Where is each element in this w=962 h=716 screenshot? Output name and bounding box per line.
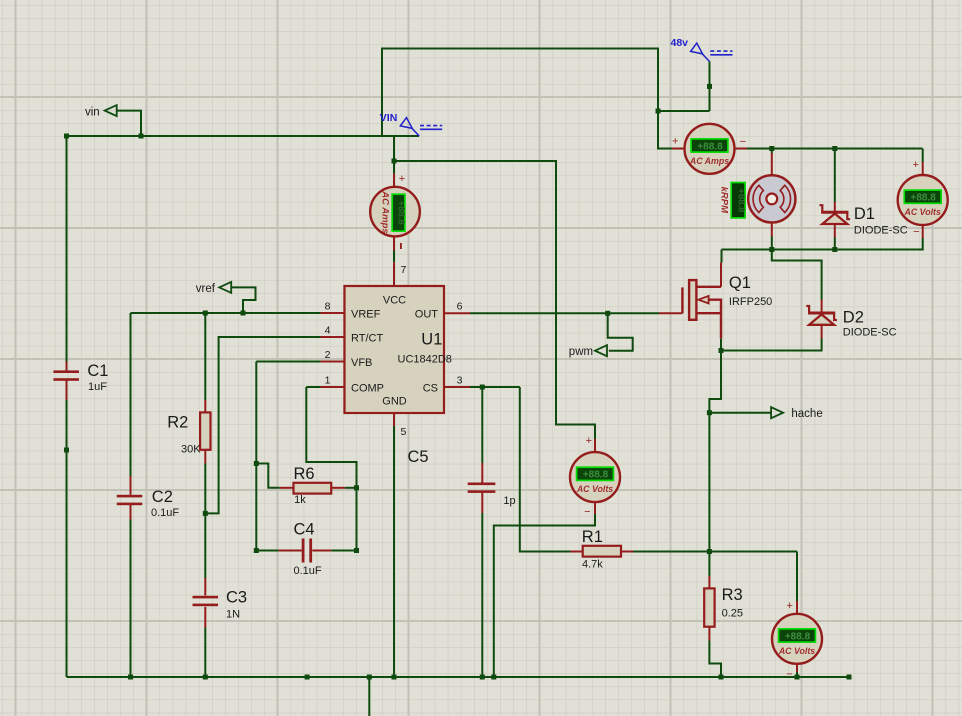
diode D2: [806, 306, 837, 325]
label U1: [421, 331, 442, 349]
svg-text:+88.8: +88.8: [697, 141, 723, 152]
value R1 4.7k: [582, 558, 603, 570]
svg-text:−: −: [584, 506, 590, 518]
voltmeter AC Volts right M3: [898, 175, 948, 225]
svg-text:1uF: 1uF: [88, 381, 107, 393]
junction at 66.5,450: [64, 448, 69, 453]
label C1: [87, 362, 108, 380]
svg-text:−: −: [786, 669, 792, 681]
junction at 772,249.5: [769, 247, 774, 252]
svg-text:+: +: [672, 136, 678, 148]
diode D1: [820, 205, 851, 224]
junction at 834.8,148.5: [832, 146, 837, 151]
svg-text:GND: GND: [382, 395, 407, 407]
pin 7 VCC stub: [393, 262, 395, 286]
svg-text:OUT: OUT: [415, 308, 439, 320]
terminal pwm: [595, 345, 607, 356]
svg-text:AC Volts: AC Volts: [576, 484, 613, 494]
value R6 1k: [294, 494, 306, 506]
wire R1 node to M5: [796, 552, 798, 602]
pin name RT/CT: [351, 332, 383, 344]
pin name CS: [423, 382, 438, 394]
svg-text:8: 8: [325, 301, 331, 313]
wire GND pin to rail: [393, 426, 395, 677]
meter M1 plus: [399, 173, 405, 185]
svg-text:+88.8: +88.8: [396, 201, 407, 225]
pin 2 VFB stub: [321, 361, 345, 363]
value C2 0.1uF: [151, 507, 179, 519]
junction at 709.4,412.7: [707, 410, 712, 415]
wire R6 right: [345, 487, 357, 489]
wire hache stub: [709, 412, 771, 414]
wire main input horizontal net VIN: [67, 135, 420, 137]
wire D1 bottom: [834, 224, 836, 249]
wire 48v probe drop: [709, 62, 711, 112]
pin number 6: [457, 301, 463, 313]
wire C3 to ground rail: [204, 628, 206, 678]
label vin: [85, 107, 100, 119]
svg-text:CS: CS: [423, 382, 438, 394]
wire C5 top: [481, 387, 483, 463]
voltmeter AC Volts bottom M5: [772, 614, 822, 664]
svg-text:0.1uF: 0.1uF: [294, 565, 322, 577]
resistor R3: [704, 576, 714, 641]
wire meter M2 to right corner: [747, 148, 923, 150]
value C4 0.1uF: [294, 565, 322, 577]
svg-text:+88.8: +88.8: [911, 193, 937, 204]
svg-text:7: 7: [401, 264, 407, 276]
svg-text:−: −: [913, 226, 919, 238]
svg-text:R2: R2: [167, 413, 188, 431]
svg-text:1: 1: [325, 375, 331, 387]
meter M5 plus: [786, 600, 792, 612]
junction at 243,313: [241, 311, 246, 316]
wire RT/CT riser: [205, 337, 320, 513]
svg-text:6: 6: [457, 301, 463, 313]
junction rail 369.3: [367, 675, 372, 680]
svg-text:VFB: VFB: [351, 357, 372, 369]
svg-text:+88.8: +88.8: [785, 631, 811, 642]
wire D2 bottom: [721, 325, 822, 351]
capacitor C1: [53, 362, 78, 401]
label C5: [408, 448, 429, 466]
wire R2 junction to C3: [204, 513, 206, 578]
wire R6 left jog: [256, 464, 280, 488]
value D1 DIODE-SC: [854, 225, 908, 237]
svg-text:RT/CT: RT/CT: [351, 332, 383, 344]
resistor R1: [571, 546, 634, 557]
svg-text:pwm: pwm: [569, 346, 593, 358]
svg-text:U1: U1: [421, 331, 442, 349]
junction at 721,350.5: [719, 348, 724, 353]
meter M3 minus: [913, 226, 919, 238]
capacitor C3: [193, 578, 219, 628]
meter stub red bottom M3: [922, 225, 924, 239]
junction rail 721: [719, 675, 724, 680]
value U1 UC1842D8: [398, 354, 452, 366]
pin name COMP: [351, 382, 384, 394]
label C2: [152, 488, 173, 506]
wire CS net: [470, 386, 520, 388]
svg-text:+: +: [786, 600, 792, 612]
pin name VCC: [383, 295, 406, 307]
meter M1 stub bottom: [393, 237, 395, 263]
meter M4 plus: [586, 435, 592, 447]
pin 4 RT/CT stub: [321, 336, 345, 338]
wire CS to R1: [520, 387, 571, 552]
transistor Q1 IRFP250: [682, 263, 721, 339]
wire node to R3: [708, 552, 710, 577]
wire pwm jog: [608, 313, 633, 350]
wire VREF net: [131, 312, 321, 314]
svg-text:+88.8: +88.8: [735, 188, 746, 212]
label pwm: [569, 346, 593, 358]
value R2 30K: [181, 443, 201, 455]
meter M2 minus: [740, 136, 746, 148]
terminal vin: [105, 105, 117, 116]
wire R3 to ground rail: [709, 641, 721, 678]
svg-text:3: 3: [457, 375, 463, 387]
value R3 0.25: [722, 607, 743, 619]
svg-text:4.7k: 4.7k: [582, 558, 603, 570]
svg-text:AC Volts: AC Volts: [778, 646, 815, 656]
svg-text:Q1: Q1: [729, 274, 751, 292]
meter M4 stub top: [594, 439, 596, 452]
junction rail 493.8: [491, 675, 496, 680]
svg-text:1p: 1p: [503, 495, 515, 507]
svg-text:1N: 1N: [226, 608, 240, 620]
svg-text:DIODE-SC: DIODE-SC: [854, 225, 908, 237]
svg-text:0.25: 0.25: [722, 607, 743, 619]
svg-text:VREF: VREF: [351, 308, 381, 320]
junction at 772,148.5: [769, 146, 774, 151]
pin number 4: [325, 325, 331, 337]
junction at 205.3,513.4: [203, 511, 208, 516]
wire ground stem: [368, 677, 370, 716]
svg-text:C2: C2: [152, 488, 173, 506]
voltmeter AC Amps U-top-right: [685, 124, 735, 174]
svg-text:C4: C4: [294, 520, 315, 538]
svg-text:R1: R1: [582, 528, 603, 546]
svg-text:AC Volts: AC Volts: [904, 207, 941, 217]
meter M3 plus: [912, 159, 918, 171]
svg-text:−: −: [740, 136, 746, 148]
pin name GND: [382, 395, 407, 407]
svg-text:C5: C5: [408, 448, 429, 466]
pin name VFB: [351, 357, 372, 369]
pin name VREF: [351, 308, 381, 320]
junction rail 482.3: [480, 675, 485, 680]
probe 48v: [671, 37, 733, 61]
svg-text:kRPM: kRPM: [718, 187, 729, 214]
label D2: [843, 308, 864, 326]
svg-text:vin: vin: [85, 107, 100, 119]
meter M4 minus: [584, 506, 590, 518]
pin number 2: [325, 349, 331, 361]
junction at 834.8,249.5: [832, 247, 837, 252]
svg-text:C1: C1: [87, 362, 108, 380]
label Q1: [729, 274, 751, 292]
wire gate net from OUT pin: [470, 312, 682, 314]
meter M5 stub top: [796, 601, 798, 615]
junction at 205.3,313: [203, 311, 208, 316]
label kRPM: [718, 187, 729, 214]
wire vref terminal jog: [231, 287, 256, 313]
wire vin terminal stub: [117, 111, 142, 136]
meter M5 minus: [786, 669, 792, 681]
value C1 1uF: [88, 381, 107, 393]
wire D2 branch: [772, 250, 822, 312]
meter M2 plus: [672, 136, 678, 148]
svg-text:48v: 48v: [671, 37, 689, 49]
junction rail end 849: [847, 675, 852, 680]
svg-text:COMP: COMP: [351, 382, 384, 394]
junction at 256.3,550.5: [254, 548, 259, 553]
value C3 1N: [226, 608, 240, 620]
junction rail 130.5: [128, 675, 133, 680]
value C5 1p: [503, 495, 515, 507]
wire to AC Amps meter plus: [658, 111, 672, 149]
svg-text:C3: C3: [226, 588, 247, 606]
svg-text:VIN: VIN: [380, 112, 398, 124]
wire bottom of M3 to motor bottom: [722, 238, 923, 250]
junction at 607.7,313.3: [605, 311, 610, 316]
wire VIN probe segment: [394, 161, 595, 439]
meter M5 bottom stub: [796, 664, 798, 677]
label D1: [854, 205, 875, 223]
pin number 1: [325, 375, 331, 387]
wire motor top stub: [771, 149, 773, 176]
svg-text:5: 5: [401, 426, 407, 438]
pin 3 CS stub: [444, 386, 470, 388]
wire VREF to R2: [204, 313, 206, 400]
wire hache node down to R1 node: [708, 413, 710, 552]
ammeter AC Amps rotated M1: [370, 187, 420, 237]
value Q1 IRFP250: [729, 296, 772, 308]
meter stub red top M3: [922, 162, 924, 176]
wire C5 to ground rail: [481, 513, 483, 677]
svg-text:4: 4: [325, 325, 331, 337]
meter kRPM LCD: [731, 183, 746, 218]
svg-text:2: 2: [325, 349, 331, 361]
junction rail 394: [392, 675, 397, 680]
label C3: [226, 588, 247, 606]
svg-text:30K: 30K: [181, 443, 201, 455]
value D2 DIODE-SC: [843, 327, 897, 339]
label vref: [196, 283, 216, 295]
wire D1 top: [834, 149, 836, 212]
junction at 482.3,387: [480, 385, 485, 390]
junction endpoint 66.5,136: [64, 134, 69, 139]
junction rail 797: [795, 675, 800, 680]
svg-text:+88.8: +88.8: [583, 470, 609, 481]
wire VREF to C2: [130, 313, 132, 476]
svg-text:D1: D1: [854, 205, 875, 223]
junction at 709.5,86.4: [707, 84, 712, 89]
probe VIN: [380, 112, 442, 136]
meter M4 bottom path: [494, 502, 595, 677]
junction at 394,161: [392, 159, 397, 164]
label hache: [791, 408, 822, 420]
wire motor-bottom to Q1 drain: [721, 250, 723, 263]
junction at 141,136: [139, 134, 144, 139]
label R1: [582, 528, 603, 546]
svg-text:D2: D2: [843, 308, 864, 326]
wire source to hache: [709, 351, 721, 413]
svg-text:R3: R3: [722, 586, 743, 604]
pin 8 VREF stub: [321, 312, 345, 314]
svg-text:+: +: [399, 173, 405, 185]
wire Q1 source net: [720, 339, 722, 351]
pin 6 OUT stub: [444, 312, 470, 314]
pin name OUT: [415, 308, 439, 320]
meter M1 stub top: [393, 174, 395, 188]
svg-text:0.1uF: 0.1uF: [151, 507, 179, 519]
wire right drop to AC Volts D1 meter: [922, 149, 924, 163]
svg-text:UC1842D8: UC1842D8: [398, 354, 452, 366]
capacitor C5: [468, 463, 496, 513]
svg-text:R6: R6: [294, 465, 315, 483]
pin number 8: [325, 301, 331, 313]
label R6: [294, 465, 315, 483]
motor M1(kRPM) body: [748, 175, 795, 222]
wire R1 right to node: [633, 551, 797, 553]
pin 1 COMP stub: [321, 386, 345, 388]
label R2: [167, 413, 188, 431]
svg-text:hache: hache: [791, 408, 822, 420]
wire VIN node to meter M1: [393, 136, 395, 174]
junction rail 205.3: [203, 675, 208, 680]
junction rail 307.1: [305, 675, 310, 680]
voltmeter AC Volts mid M4: [570, 452, 620, 502]
svg-text:+: +: [912, 159, 918, 171]
meter M1 minus: [400, 243, 402, 249]
pin 5 GND stub: [393, 413, 395, 426]
op-amp/IC U1 UC1842D8 body: [345, 286, 445, 413]
svg-text:+: +: [586, 435, 592, 447]
svg-text:VCC: VCC: [383, 295, 406, 307]
meter stub red left M2: [672, 148, 685, 150]
pin number 5: [401, 426, 407, 438]
svg-text:DIODE-SC: DIODE-SC: [843, 327, 897, 339]
junction at 356.5,550.5: [354, 548, 359, 553]
terminal vref: [219, 282, 231, 293]
junction at 658,111: [656, 109, 661, 114]
svg-text:vref: vref: [196, 283, 216, 295]
resistor R2: [200, 400, 210, 464]
label R3: [722, 586, 743, 604]
junction at 709.4,551.5: [707, 549, 712, 554]
capacitor C2: [117, 476, 143, 520]
meter stub red right M2: [735, 148, 748, 150]
wire C2 to ground rail: [130, 520, 132, 678]
svg-text:1k: 1k: [294, 494, 306, 506]
wire COMP net: [306, 387, 356, 551]
wire motor bottom stub: [771, 222, 773, 249]
junction at 256.3,463.5: [254, 461, 259, 466]
terminal hache: [771, 407, 783, 418]
label C4: [294, 520, 315, 538]
wire R2 bottom to junction: [204, 464, 206, 514]
wire left vertical rail upper: [66, 136, 68, 362]
junction at 356.5,487.8: [354, 485, 359, 490]
wire riser to top rail: [382, 49, 710, 137]
svg-text:AC Amps: AC Amps: [689, 156, 729, 166]
capacitor C4: [256, 539, 356, 563]
svg-text:AC Amps: AC Amps: [380, 190, 391, 233]
pin number 3: [457, 375, 463, 387]
pin number 7: [401, 264, 407, 276]
resistor R6: [280, 483, 345, 494]
svg-text:IRFP250: IRFP250: [729, 296, 772, 308]
wire left vertical rail lower: [66, 400, 68, 677]
wire VFB net: [256, 362, 320, 551]
wire ground rail: [67, 676, 850, 678]
